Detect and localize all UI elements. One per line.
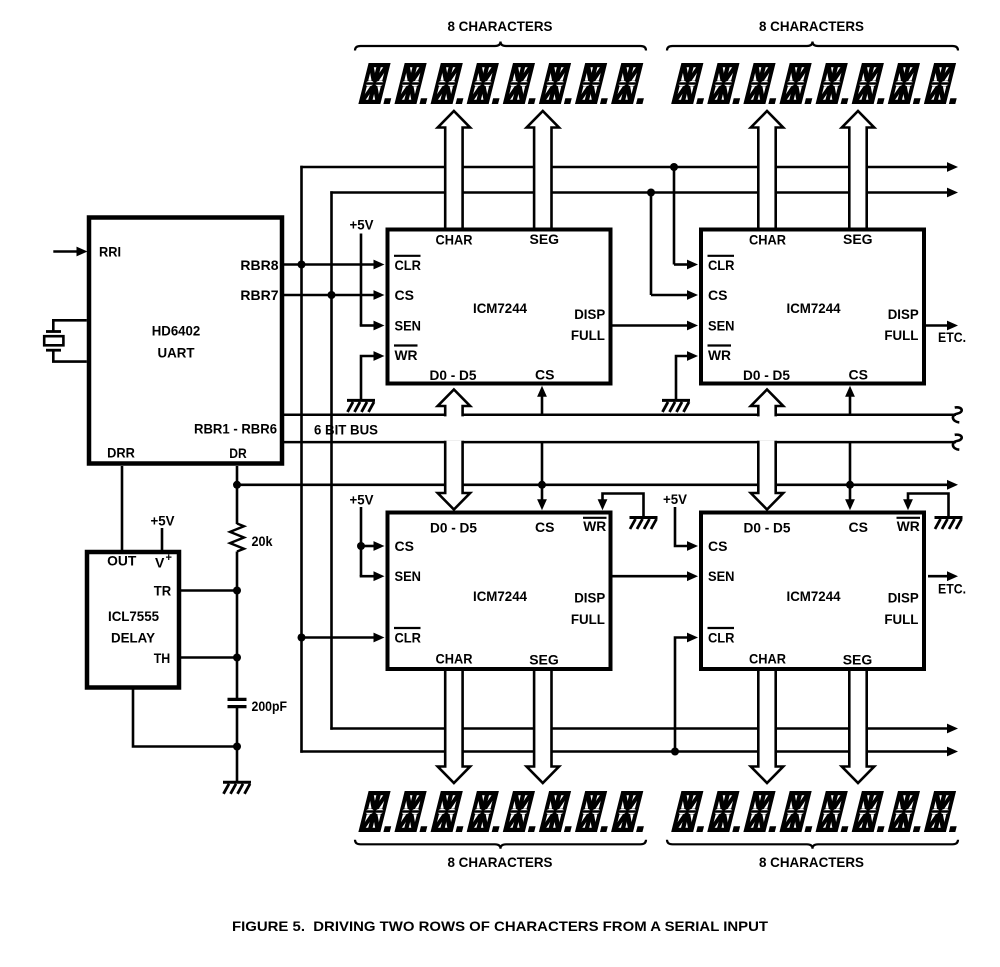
svg-text:+5V: +5V bbox=[350, 492, 375, 508]
IC U2 ICM7244 top-left bbox=[388, 230, 611, 384]
svg-text:SEN: SEN bbox=[708, 318, 735, 334]
arrowhead CLR U5 bbox=[687, 633, 698, 643]
svg-text:DISP: DISP bbox=[888, 306, 919, 322]
arrow RBR7 top run end bbox=[947, 188, 958, 198]
svg-text:CS: CS bbox=[535, 519, 554, 535]
svg-text:CS: CS bbox=[848, 519, 867, 535]
wire CS stub U5 bbox=[849, 442, 852, 501]
svg-text:CLR: CLR bbox=[395, 630, 422, 646]
brace top-left bbox=[355, 42, 646, 51]
wire CS stub U4 bbox=[541, 442, 544, 501]
arrowhead CS U5 left bbox=[687, 541, 698, 551]
junction CLR U5 bbox=[671, 748, 679, 756]
svg-text:DISP: DISP bbox=[888, 590, 919, 606]
svg-text:+5V: +5V bbox=[663, 491, 688, 507]
wire DRR to OUT bbox=[121, 466, 124, 551]
wire CS stub U2 bottom bbox=[541, 395, 544, 415]
svg-text:ICM7244: ICM7244 bbox=[787, 300, 841, 316]
crystal X1 top plate bbox=[46, 330, 61, 333]
IC U5 ICM7244 bottom-right bbox=[701, 513, 924, 670]
wire +5V into SEN U2 bbox=[361, 324, 374, 327]
wire RBR8 vertical riser x=301.5 bbox=[300, 166, 303, 753]
svg-text:D0 - D5: D0 - D5 bbox=[744, 520, 791, 536]
block arrow SEG U4 to display bbox=[527, 669, 559, 783]
wire CLR drop to U3 bbox=[673, 167, 676, 265]
arrowhead into WR U2 bbox=[374, 351, 385, 361]
svg-text:ICM7244: ICM7244 bbox=[787, 588, 841, 604]
wire crystal top bbox=[53, 320, 87, 331]
svg-text:HD6402: HD6402 bbox=[152, 323, 201, 339]
svg-text:ETC.: ETC. bbox=[938, 329, 966, 345]
svg-text:SEN: SEN bbox=[395, 318, 422, 334]
arrowhead CLR U4 bbox=[374, 633, 385, 643]
svg-text:RBR1 - RBR6: RBR1 - RBR6 bbox=[194, 421, 277, 437]
arrowhead SEN U3 bbox=[687, 321, 698, 331]
svg-text:CLR: CLR bbox=[708, 257, 735, 273]
crystal X1 body bbox=[44, 336, 63, 345]
ground for WR U3 bbox=[662, 400, 690, 412]
svg-text:20k: 20k bbox=[252, 533, 273, 549]
svg-text:CS: CS bbox=[535, 367, 554, 383]
wire CLR into U4 bbox=[302, 636, 375, 639]
svg-text:SEN: SEN bbox=[708, 568, 735, 584]
svg-text:OUT: OUT bbox=[107, 553, 137, 569]
arrowhead CS U3 bottom bbox=[845, 386, 855, 397]
wire +5V U5 bbox=[675, 507, 688, 546]
svg-text:ICM7244: ICM7244 bbox=[473, 588, 527, 604]
svg-text:CS: CS bbox=[395, 538, 414, 554]
brace bottom-left bbox=[355, 840, 646, 849]
svg-text:CHAR: CHAR bbox=[749, 232, 786, 248]
brace top-right bbox=[667, 42, 958, 51]
svg-text:DR: DR bbox=[229, 445, 247, 461]
svg-text:8 CHARACTERS: 8 CHARACTERS bbox=[759, 854, 864, 870]
svg-text:8 CHARACTERS: 8 CHARACTERS bbox=[448, 18, 553, 34]
svg-text:WR: WR bbox=[897, 518, 920, 534]
wire C1 to ground bbox=[236, 707, 239, 782]
wire WR U4 elbow bbox=[603, 494, 644, 517]
arrow RBR8 bottom end bbox=[947, 747, 958, 757]
svg-text:RBR7: RBR7 bbox=[240, 287, 278, 303]
block arrow CHAR U5 to display bbox=[751, 669, 783, 783]
wire RBR8 pin bbox=[284, 263, 374, 266]
svg-text:SEG: SEG bbox=[843, 652, 873, 668]
svg-text:FULL: FULL bbox=[571, 611, 605, 627]
wire DISP FULL U2 to SEN U3 bbox=[613, 324, 688, 327]
wire CS drop to U3 bbox=[650, 193, 653, 296]
wire DISP FULL U5 out bbox=[928, 575, 947, 578]
ground for WR U4 bbox=[630, 518, 658, 530]
svg-text:DISP: DISP bbox=[574, 590, 605, 606]
svg-text:FIGURE 5. DRIVING TWO ROWS OF: FIGURE 5. DRIVING TWO ROWS OF CHARACTERS… bbox=[232, 918, 768, 934]
wire RBR8 top run y=167 bbox=[300, 166, 947, 169]
arrowhead RBR7 into CS U2 bbox=[374, 290, 385, 300]
svg-text:UART: UART bbox=[158, 345, 195, 361]
wire ICL7555 gnd pin bbox=[133, 688, 237, 747]
svg-text:6 BIT BUS: 6 BIT BUS bbox=[314, 422, 378, 438]
bus break squiggle bottom bbox=[953, 435, 962, 450]
block arrow CHAR U4 to display bbox=[438, 669, 470, 783]
block arrow CHAR U2 to display bbox=[438, 111, 470, 229]
svg-text:DELAY: DELAY bbox=[111, 630, 156, 646]
wire crystal bottom bbox=[53, 350, 87, 361]
svg-text:CS: CS bbox=[848, 367, 867, 383]
ground for WR U5 bbox=[935, 518, 963, 530]
block arrow SEG U5 to display bbox=[842, 669, 874, 783]
wire R1 to TH bbox=[236, 552, 239, 699]
svg-text:ICM7244: ICM7244 bbox=[473, 300, 527, 316]
wire CS stub U3 bottom bbox=[849, 395, 852, 415]
wire +5V U2 vertical bbox=[360, 234, 363, 326]
wire into CS U4 bbox=[361, 545, 374, 548]
svg-text:CLR: CLR bbox=[708, 630, 735, 646]
junction DR bbox=[233, 481, 241, 489]
ground below C1 bbox=[223, 782, 251, 794]
ground for WR U2 bbox=[347, 400, 375, 412]
brace bottom-right bbox=[667, 840, 958, 849]
wire DR run y=484.8 bbox=[237, 483, 947, 486]
svg-text:D0 - D5: D0 - D5 bbox=[743, 367, 790, 383]
arrow DISP FULL U3 bbox=[947, 321, 958, 331]
wire DR drop bbox=[236, 466, 239, 485]
wire WR U2 stub bbox=[361, 356, 374, 399]
wire RBR7 bottom run y=728.5 bbox=[330, 727, 947, 730]
display row DS4 (8 characters) bbox=[671, 791, 965, 832]
wire +5V U6 bbox=[161, 528, 164, 551]
junction CS U5 on DR bbox=[846, 481, 854, 489]
junction C1 ground node bbox=[233, 743, 241, 751]
IC U3 ICM7244 top-right bbox=[701, 230, 924, 384]
svg-text:FULL: FULL bbox=[884, 611, 918, 627]
svg-text:WR: WR bbox=[708, 347, 731, 363]
junction RBR8 node bbox=[298, 261, 306, 269]
junction RBR7 top to U3 CS bbox=[647, 189, 655, 197]
block arrow CHAR U3 to display bbox=[751, 111, 783, 229]
crystal X1 bottom plate bbox=[46, 349, 61, 352]
svg-text:RRI: RRI bbox=[99, 244, 121, 260]
wire RBR7 vertical riser x=331.5 bbox=[330, 191, 333, 729]
svg-text:ETC.: ETC. bbox=[938, 581, 966, 597]
svg-text:SEN: SEN bbox=[395, 568, 422, 584]
svg-text:DISP: DISP bbox=[574, 306, 605, 322]
arrow DR run end bbox=[947, 480, 958, 490]
arrowhead +5V into SEN U2 bbox=[374, 321, 385, 331]
arrowhead CS U3 bbox=[687, 290, 698, 300]
svg-text:SEG: SEG bbox=[529, 652, 559, 668]
svg-text:D0 - D5: D0 - D5 bbox=[430, 367, 477, 383]
block arrow SEG U2 to display bbox=[527, 111, 559, 229]
junction RBR8 top to U3 CLR bbox=[670, 163, 678, 171]
svg-text:+5V: +5V bbox=[151, 513, 176, 529]
wire DISP FULL U3 out bbox=[926, 324, 947, 327]
display row DS2 (8 characters) bbox=[671, 63, 965, 104]
capacitor C1 200pF bottom plate bbox=[228, 705, 247, 708]
display row DS3 (8 characters) bbox=[358, 791, 652, 832]
svg-text:FULL: FULL bbox=[571, 327, 605, 343]
bus bottom line bbox=[284, 441, 956, 444]
arrowhead WR U5 bbox=[903, 499, 913, 510]
svg-text:SEG: SEG bbox=[530, 231, 560, 247]
bus break squiggle top bbox=[953, 407, 962, 422]
svg-text:FULL: FULL bbox=[884, 327, 918, 343]
capacitor C1 200pF top plate bbox=[228, 698, 247, 701]
arrow RBR7 bottom end bbox=[947, 724, 958, 734]
arrowhead WR U4 bbox=[598, 499, 608, 510]
wire +5V U4 vertical bbox=[360, 507, 363, 576]
wire into SEN U4 bbox=[361, 575, 374, 578]
svg-text:8 CHARACTERS: 8 CHARACTERS bbox=[759, 18, 864, 34]
junction TH bbox=[233, 654, 241, 662]
svg-text:CHAR: CHAR bbox=[436, 232, 473, 248]
arrowhead CS U2 bottom bbox=[537, 386, 547, 397]
wire DISP FULL U4 to SEN U5 bbox=[613, 575, 688, 578]
wire DR to R1 bbox=[236, 485, 239, 524]
IC U6 ICL7555 delay box bbox=[87, 552, 179, 688]
block arrow bus to D0-D5 U5 bbox=[751, 441, 783, 510]
svg-text:V: V bbox=[155, 555, 165, 571]
svg-text:CS: CS bbox=[395, 287, 414, 303]
junction CLR U4 bbox=[298, 634, 306, 642]
block arrow bus to D0-D5 U4 bbox=[438, 441, 470, 510]
arrowhead into WR U3 bbox=[687, 351, 698, 361]
arrowhead CLR U3 bbox=[687, 260, 698, 270]
wire WR U3 stub bbox=[676, 356, 688, 399]
arrow DISP FULL U5 bbox=[947, 571, 958, 581]
block arrow bus to D0-D5 U3 bbox=[751, 390, 783, 417]
svg-text:SEG: SEG bbox=[843, 231, 873, 247]
arrowhead RBR8 into CLR U2 bbox=[374, 260, 385, 270]
resistor R1 20k bbox=[230, 524, 244, 552]
svg-text:+: + bbox=[166, 552, 172, 564]
arrowhead RRI bbox=[77, 247, 88, 257]
svg-text:WR: WR bbox=[583, 518, 606, 534]
svg-text:WR: WR bbox=[395, 347, 418, 363]
block arrow SEG U3 to display bbox=[842, 111, 874, 229]
block arrow bus to D0-D5 U2 bbox=[438, 390, 470, 417]
junction TR bbox=[233, 587, 241, 595]
svg-text:CS: CS bbox=[708, 538, 727, 554]
svg-text:TR: TR bbox=[154, 583, 171, 599]
bus top line bbox=[284, 414, 956, 417]
svg-text:200pF: 200pF bbox=[252, 698, 288, 714]
svg-text:CHAR: CHAR bbox=[749, 651, 786, 667]
wire RBR8 bottom run y=751.5 bbox=[300, 750, 947, 753]
junction CS U4 on DR bbox=[538, 481, 546, 489]
IC U4 ICM7244 bottom-left bbox=[388, 513, 611, 670]
svg-text:CLR: CLR bbox=[395, 257, 422, 273]
IC U1 HD6402 UART box bbox=[89, 218, 282, 464]
junction RBR7 node bbox=[328, 291, 336, 299]
svg-text:TH: TH bbox=[154, 650, 171, 666]
wire TR bbox=[181, 589, 237, 592]
arrowhead CS U4 left bbox=[374, 541, 385, 551]
svg-text:CS: CS bbox=[708, 287, 727, 303]
wire RBR7 top run y=192.5 bbox=[330, 191, 947, 194]
arrowhead CS U4 top bbox=[537, 499, 547, 510]
svg-text:8 CHARACTERS: 8 CHARACTERS bbox=[448, 854, 553, 870]
junction +5V CS U4 bbox=[357, 542, 365, 550]
display row DS1 (8 characters) bbox=[358, 63, 652, 104]
wire RBR7 pin bbox=[284, 294, 374, 297]
wire CS into U3 bbox=[651, 294, 688, 297]
wire CLR U5 riser bbox=[675, 638, 688, 753]
svg-text:RBR8: RBR8 bbox=[240, 257, 278, 273]
svg-text:DRR: DRR bbox=[107, 445, 135, 461]
svg-text:D0 - D5: D0 - D5 bbox=[430, 520, 477, 536]
wire RRI input bbox=[53, 250, 77, 253]
svg-text:+5V: +5V bbox=[350, 217, 375, 233]
wire TH bbox=[181, 656, 237, 659]
wire CLR into U3 bbox=[674, 263, 688, 266]
arrowhead SEN U4 bbox=[374, 571, 385, 581]
arrowhead CS U5 top bbox=[845, 499, 855, 510]
svg-text:ICL7555: ICL7555 bbox=[108, 608, 159, 624]
wire WR U5 elbow bbox=[908, 494, 949, 517]
arrowhead SEN U5 bbox=[687, 571, 698, 581]
svg-text:CHAR: CHAR bbox=[436, 651, 473, 667]
arrow RBR8 top run end bbox=[947, 162, 958, 172]
